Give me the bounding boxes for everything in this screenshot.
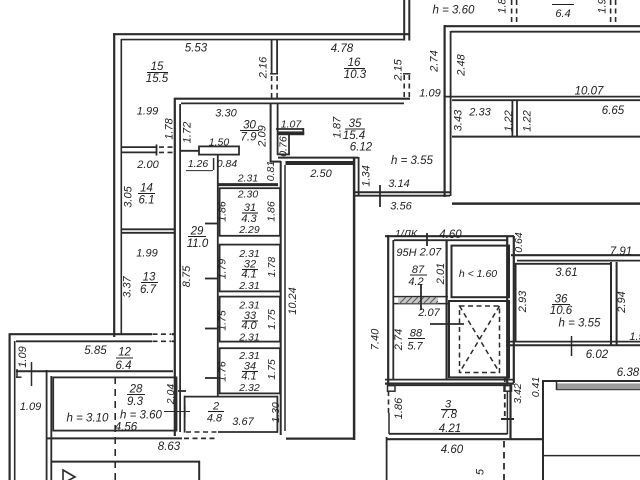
wall P b <box>452 99 640 101</box>
svg-text:87: 87 <box>412 264 425 276</box>
tick elevator <box>430 323 464 325</box>
room 35 underline <box>345 128 365 130</box>
svg-text:3.42: 3.42 <box>512 383 524 404</box>
wall K stub2 <box>16 376 22 378</box>
room 34 underline <box>242 371 258 373</box>
svg-text:4.8: 4.8 <box>207 413 223 425</box>
svg-text:7.91: 7.91 <box>610 246 632 258</box>
wall Q b <box>516 101 518 136</box>
balcony top line <box>543 380 640 382</box>
stair arrow triangle <box>63 470 75 480</box>
room36 box top <box>515 263 612 265</box>
svg-text:4.56: 4.56 <box>115 422 138 434</box>
svg-text:9.3: 9.3 <box>127 396 144 408</box>
wall I inner2 <box>172 340 175 342</box>
room top underline <box>552 4 574 6</box>
svg-text:2.31: 2.31 <box>238 280 259 292</box>
svg-text:0.84: 0.84 <box>217 158 238 170</box>
wall I outer <box>10 333 152 335</box>
wall36 bottom a <box>506 341 640 343</box>
svg-text:6.1: 6.1 <box>139 195 155 207</box>
svg-text:2.31: 2.31 <box>238 332 259 344</box>
wall left inner <box>120 39 122 334</box>
svg-text:1.34: 1.34 <box>361 165 373 186</box>
svg-text:1.86: 1.86 <box>217 201 229 222</box>
room 2 underline <box>208 411 224 413</box>
tick room33 <box>205 328 217 330</box>
svg-text:15.5: 15.5 <box>146 73 169 85</box>
opening top a1 <box>511 0 513 25</box>
balcony step <box>556 381 558 390</box>
wall room29 right <box>217 154 219 396</box>
svg-text:1.8: 1.8 <box>497 0 509 14</box>
tick stub F <box>178 390 186 392</box>
svg-text:1.9: 1.9 <box>597 0 609 14</box>
corridor right a <box>353 157 356 440</box>
wall36 right a <box>610 262 612 345</box>
room2 top <box>184 396 278 398</box>
svg-text:0.81: 0.81 <box>265 161 277 181</box>
wall bottomright v <box>542 380 544 480</box>
stair left inner <box>392 240 394 379</box>
svg-text:6.38: 6.38 <box>617 367 640 379</box>
svg-text:3.14: 3.14 <box>388 178 409 190</box>
svg-text:29: 29 <box>190 226 204 238</box>
wall K corridor top <box>16 370 173 372</box>
tick room34 <box>205 377 217 379</box>
svg-text:2.32: 2.32 <box>238 382 260 394</box>
door dash 3.42 <box>504 377 506 417</box>
svg-text:0.76: 0.76 <box>278 136 290 157</box>
svg-text:2.29: 2.29 <box>238 224 260 236</box>
tick 3.14 <box>379 185 381 207</box>
wall I inner <box>16 340 152 342</box>
tick 4.60 stair <box>426 233 428 246</box>
sill hatch <box>398 297 438 303</box>
svg-text:h = 3.55: h = 3.55 <box>559 318 601 330</box>
niche channel right <box>288 135 290 155</box>
svg-text:1.75: 1.75 <box>266 359 278 380</box>
wall 3.56 b <box>355 195 450 197</box>
wall K stub <box>16 369 18 377</box>
svg-text:3.56: 3.56 <box>390 201 412 213</box>
svg-text:4.21: 4.21 <box>439 423 461 435</box>
svg-text:13: 13 <box>143 272 156 284</box>
wall 3.56 a <box>355 191 450 193</box>
svg-text:2.31: 2.31 <box>237 173 258 185</box>
room 3 underline <box>441 409 456 411</box>
stair bottom inner <box>385 379 514 381</box>
svg-text:3.30: 3.30 <box>215 108 237 120</box>
svg-text:1.22: 1.22 <box>503 110 515 131</box>
corridor left a <box>280 161 282 435</box>
wall I outer2 <box>172 333 175 335</box>
dimline 1.26 <box>186 170 213 172</box>
svg-text:1.72: 1.72 <box>182 122 194 143</box>
svg-text:8.75: 8.75 <box>181 265 193 287</box>
opening top b2 <box>615 0 617 25</box>
wall36 bottom b <box>506 344 640 346</box>
room3 stub right <box>504 386 512 392</box>
svg-text:1.26: 1.26 <box>188 158 209 170</box>
room 28 underline <box>127 394 145 396</box>
svg-text:1.86: 1.86 <box>266 201 278 222</box>
svg-text:1.09: 1.09 <box>17 346 29 367</box>
niche top <box>276 128 304 130</box>
svg-text:2.09: 2.09 <box>257 125 269 147</box>
wall36 right b <box>616 262 618 345</box>
tick 2.04 <box>184 405 186 417</box>
wall left outer <box>113 33 115 337</box>
room 87 underline <box>410 274 427 276</box>
wall C outer <box>408 0 410 41</box>
svg-text:10.3: 10.3 <box>344 69 367 81</box>
svg-text:36: 36 <box>555 294 568 306</box>
balcony bottom line <box>543 455 640 457</box>
stair bottom outer <box>385 383 514 385</box>
svg-text:5.53: 5.53 <box>185 43 208 55</box>
svg-text:95Н: 95Н <box>396 247 416 259</box>
svg-text:12: 12 <box>118 347 131 359</box>
svg-text:5.7: 5.7 <box>407 341 423 353</box>
svg-text:h = 3.60: h = 3.60 <box>433 5 475 17</box>
svg-text:1.50: 1.50 <box>209 137 230 149</box>
svg-text:1.78: 1.78 <box>266 257 278 278</box>
svg-text:5.85: 5.85 <box>84 345 107 357</box>
room 29 underline <box>188 236 206 238</box>
wall L b <box>50 376 52 480</box>
dimline 2.04 <box>164 411 190 413</box>
svg-text:0.64: 0.64 <box>513 232 525 253</box>
wall Q a <box>511 101 513 136</box>
corridor right b <box>358 157 360 196</box>
svg-text:14: 14 <box>140 183 153 195</box>
wall H b <box>122 232 174 234</box>
svg-text:16: 16 <box>348 57 361 69</box>
dash partition room28 <box>114 377 116 480</box>
wall N inner <box>450 31 452 196</box>
closet 1.50 <box>199 146 239 154</box>
svg-text:1.76: 1.76 <box>217 361 229 382</box>
svg-text:1/ЛК: 1/ЛК <box>395 228 418 240</box>
svg-text:6.65: 6.65 <box>602 105 625 117</box>
svg-text:6.7: 6.7 <box>140 284 157 296</box>
svg-text:1.78: 1.78 <box>164 117 176 139</box>
svg-text:2.48: 2.48 <box>456 53 468 76</box>
door I b <box>153 340 172 342</box>
stairlow left <box>386 437 388 480</box>
svg-text:4.1: 4.1 <box>241 269 256 281</box>
svg-text:1.07: 1.07 <box>281 119 303 131</box>
wall36 top outer <box>511 254 640 256</box>
svg-text:2: 2 <box>212 401 219 413</box>
svg-text:6.02: 6.02 <box>586 349 609 361</box>
room 88 underline <box>408 338 425 340</box>
room3 stub left <box>388 386 396 392</box>
svg-text:4.2: 4.2 <box>408 276 423 288</box>
room 15 underline <box>147 72 168 74</box>
closet h160 box <box>452 246 510 298</box>
wall L a <box>46 370 48 480</box>
wall P a <box>444 96 640 98</box>
svg-text:2.30: 2.30 <box>237 189 259 201</box>
corridor left b <box>284 165 286 431</box>
svg-text:10.24: 10.24 <box>287 287 299 315</box>
room 31 box <box>220 188 280 236</box>
svg-text:11.0: 11.0 <box>187 238 209 250</box>
wall topright inner <box>451 31 640 33</box>
sill bottom <box>394 303 448 305</box>
svg-text:1.22: 1.22 <box>522 110 534 131</box>
svg-text:2.33: 2.33 <box>468 107 491 119</box>
wall D b <box>276 39 278 74</box>
svg-text:7.8: 7.8 <box>441 409 458 421</box>
svg-text:1.99: 1.99 <box>137 106 158 118</box>
room 33 box <box>220 297 280 342</box>
wall D2 a <box>270 103 272 162</box>
wall top outer <box>113 33 410 35</box>
niche bar <box>278 131 304 135</box>
room3 left low <box>388 413 390 434</box>
door I a <box>153 333 172 335</box>
tick 1.26-0.84 <box>213 158 215 170</box>
svg-text:3.43: 3.43 <box>453 109 465 131</box>
svg-text:2.07: 2.07 <box>417 307 440 319</box>
wall J outer <box>9 333 11 480</box>
wall F outer <box>174 98 176 436</box>
svg-text:1.99: 1.99 <box>136 248 157 260</box>
room 16 underline <box>344 68 365 70</box>
closet stub <box>181 150 199 152</box>
window room16 b <box>408 75 410 98</box>
sill top <box>394 296 448 298</box>
wall R <box>452 136 640 138</box>
opening top a2 <box>516 0 518 25</box>
wall G a <box>122 146 157 148</box>
svg-text:1.09: 1.09 <box>20 401 41 413</box>
room 14 underline <box>138 193 155 195</box>
svg-text:10.07: 10.07 <box>575 86 604 98</box>
tick 2.07 sill <box>420 284 422 310</box>
balcony gray band <box>557 383 640 389</box>
room 33 underline <box>242 320 258 322</box>
window room16 a <box>403 75 405 98</box>
svg-text:2.94: 2.94 <box>616 291 628 313</box>
room2 bottom <box>218 431 278 433</box>
svg-text:15.4: 15.4 <box>343 130 365 142</box>
stair top outer <box>385 235 514 237</box>
svg-text:1.75: 1.75 <box>217 310 229 331</box>
niche right <box>302 128 304 135</box>
svg-text:h < 1.60: h < 1.60 <box>459 268 497 280</box>
wall D a <box>271 39 273 74</box>
wall topright outer <box>444 25 640 27</box>
svg-text:1.87: 1.87 <box>332 116 344 138</box>
stair left outer <box>387 235 389 385</box>
svg-text:2.01: 2.01 <box>435 263 447 285</box>
svg-text:10.6: 10.6 <box>550 305 573 317</box>
door dash bottomright <box>503 441 505 480</box>
svg-text:2.93: 2.93 <box>517 290 529 313</box>
room 13 underline <box>141 282 158 284</box>
wall G tick <box>156 145 158 156</box>
svg-text:2.15: 2.15 <box>393 58 405 81</box>
room3 bottom <box>389 433 508 435</box>
wall36 top inner <box>517 260 640 262</box>
room3 right <box>506 391 508 434</box>
wall N outer <box>444 25 446 197</box>
svg-text:1.75: 1.75 <box>266 309 278 330</box>
wall above room31 <box>217 183 278 186</box>
svg-text:h = 3.55: h = 3.55 <box>391 155 433 167</box>
stair right outer b <box>513 236 515 383</box>
niche bottom <box>277 153 290 155</box>
svg-text:1.86: 1.86 <box>393 397 405 419</box>
room 12 underline <box>116 357 133 359</box>
corridor top bar <box>286 161 354 165</box>
svg-text:1.30: 1.30 <box>270 402 282 423</box>
elevator box <box>449 301 509 377</box>
wall M dashed <box>184 437 217 439</box>
svg-text:4.60: 4.60 <box>441 444 464 456</box>
wall E outer <box>174 98 410 100</box>
tick 3.42 <box>501 418 514 420</box>
svg-text:1.5: 1.5 <box>629 331 640 343</box>
svg-text:15: 15 <box>151 61 164 73</box>
room3 top <box>389 384 508 386</box>
svg-text:1.09: 1.09 <box>419 88 440 100</box>
svg-text:4.1: 4.1 <box>241 371 256 383</box>
lower box top <box>52 461 200 463</box>
svg-text:35: 35 <box>349 118 362 130</box>
stair top inner <box>394 239 508 241</box>
corridor top line <box>278 157 358 159</box>
tick room31 <box>205 223 217 225</box>
wall corridor bottom <box>286 438 355 440</box>
svg-text:h = 3.10: h = 3.10 <box>67 413 109 425</box>
lower box right <box>198 461 200 480</box>
room 30 underline <box>240 130 259 132</box>
svg-text:7.9: 7.9 <box>241 132 258 144</box>
svg-text:88: 88 <box>410 328 423 340</box>
tick 1.09 left <box>31 362 33 386</box>
wall D2 b <box>277 103 279 155</box>
stair right outer a <box>506 236 508 383</box>
svg-text:3.37: 3.37 <box>122 275 134 297</box>
room 31 underline <box>242 212 258 214</box>
wall M <box>47 437 182 439</box>
wall E inner <box>181 102 404 104</box>
wall D cap <box>270 73 278 75</box>
svg-text:2.16: 2.16 <box>258 56 270 79</box>
wall J inner <box>14 341 16 480</box>
svg-text:2.74: 2.74 <box>393 329 405 351</box>
wall F inner <box>179 104 181 432</box>
svg-text:5: 5 <box>475 468 487 475</box>
svg-text:3.67: 3.67 <box>232 416 254 428</box>
corridor stub left <box>270 161 281 163</box>
svg-text:6.4: 6.4 <box>116 360 132 372</box>
svg-text:2.50: 2.50 <box>309 168 332 180</box>
room3 door dash <box>388 391 390 414</box>
wall G b <box>122 151 157 153</box>
room 32 box <box>220 245 280 292</box>
room36 box left <box>515 263 517 342</box>
room 28 box <box>53 377 176 430</box>
svg-text:8.63: 8.63 <box>158 441 181 453</box>
wall S <box>452 202 640 205</box>
svg-text:0.41: 0.41 <box>530 377 542 397</box>
tick 6.02 <box>571 336 573 356</box>
svg-text:1.79: 1.79 <box>217 259 229 280</box>
tick room32 <box>205 278 217 280</box>
window room15 a <box>271 76 273 98</box>
wall C inner <box>403 0 405 41</box>
svg-text:2.74: 2.74 <box>429 50 441 72</box>
door G b <box>159 151 174 153</box>
wall bottom center <box>387 438 544 440</box>
svg-text:4.60: 4.60 <box>439 229 462 241</box>
svg-text:30: 30 <box>243 120 256 132</box>
door G a <box>159 146 174 148</box>
opening top b1 <box>610 0 612 25</box>
room2 right <box>276 396 278 433</box>
window room15 b <box>276 76 278 98</box>
elevator shaft dashed <box>460 306 500 373</box>
svg-text:h = 3.60: h = 3.60 <box>120 410 162 422</box>
stair divider <box>446 240 448 379</box>
wall C cap <box>403 73 411 75</box>
wall top inner <box>121 39 405 41</box>
svg-text:2.00: 2.00 <box>136 159 159 171</box>
room 36 underline <box>552 304 570 306</box>
room2 bottom dash <box>186 431 218 433</box>
svg-text:7.40: 7.40 <box>370 328 382 350</box>
svg-text:4.0: 4.0 <box>241 320 257 332</box>
svg-text:6.4: 6.4 <box>555 8 570 20</box>
svg-text:3.61: 3.61 <box>555 267 577 279</box>
svg-text:4.78: 4.78 <box>331 43 354 55</box>
svg-text:2.07: 2.07 <box>419 247 442 259</box>
svg-text:28: 28 <box>129 384 143 396</box>
svg-text:2.04: 2.04 <box>165 384 177 406</box>
room2 left <box>184 396 186 433</box>
wall H a <box>122 228 174 230</box>
room 34 box <box>220 348 280 393</box>
stair right lower <box>509 383 511 440</box>
room 32 underline <box>242 269 258 271</box>
svg-text:6.12: 6.12 <box>350 142 373 154</box>
svg-text:3.05: 3.05 <box>123 185 135 207</box>
